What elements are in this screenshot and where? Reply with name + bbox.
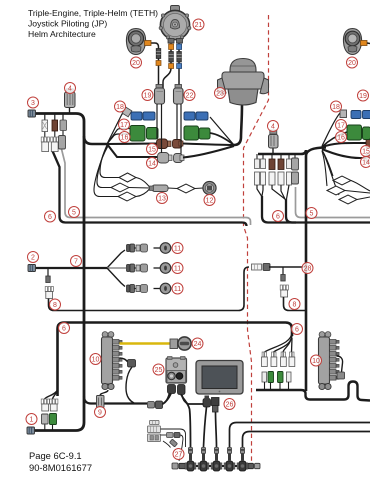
helm2 harness bar bbox=[258, 150, 306, 154]
item 27 fuse module stack bbox=[148, 421, 161, 442]
fan from loop to white pairs bbox=[45, 390, 58, 399]
inline connector 13 bbox=[150, 185, 169, 192]
terminal block 10 bbox=[102, 332, 115, 390]
wire 2 run to fan bbox=[36, 267, 108, 269]
svg-text:27: 27 bbox=[175, 452, 183, 459]
row 18: small gray connector bbox=[122, 107, 132, 117]
svg-text:6: 6 bbox=[62, 326, 66, 333]
crossover diamond near 12 bbox=[177, 184, 195, 193]
svg-text:26: 26 bbox=[226, 402, 234, 409]
row 2 dark plug bbox=[127, 265, 131, 272]
main helm1 harness vertical with top run to connector 3 and bottom run to connector 1 bbox=[35, 114, 85, 431]
row 17/16: green connector pair left bbox=[130, 126, 158, 142]
svg-text:1: 1 bbox=[30, 417, 34, 424]
connector 4b bbox=[269, 130, 279, 148]
connector 1 bbox=[27, 427, 35, 434]
black wire from block stud bbox=[120, 358, 128, 362]
wire 28 to helm2 vertical bbox=[269, 266, 306, 268]
wire pair to box left port bbox=[163, 391, 171, 404]
wire 6 black helm2 vertical b bbox=[286, 199, 296, 223]
svg-text:11: 11 bbox=[174, 246, 181, 253]
svg-text:20: 20 bbox=[132, 60, 140, 67]
svg-text:11: 11 bbox=[174, 266, 181, 273]
svg-text:6: 6 bbox=[48, 214, 52, 221]
display 26 bbox=[196, 361, 243, 395]
wire 5 gray helm2 to right edge bbox=[296, 187, 370, 218]
round connector 11 #2 bbox=[154, 267, 161, 269]
unit 23 bbox=[218, 59, 269, 106]
unit 23 cable bbox=[234, 104, 242, 145]
row 18: blue connector pair left bbox=[131, 112, 155, 120]
yellow wire 24 bbox=[120, 342, 171, 344]
NMEA tee connector 1 bbox=[185, 448, 196, 472]
stub wires top-left hanging connectors bbox=[44, 114, 46, 121]
row 2 wire bbox=[135, 267, 137, 269]
right cluster white pair 4 bbox=[289, 352, 295, 367]
svg-text:13: 13 bbox=[158, 196, 166, 203]
right cluster white pair 2 bbox=[271, 352, 277, 367]
row 3 wire bbox=[135, 288, 137, 290]
box right port cable down to tee1 bbox=[181, 395, 191, 448]
joystick 20 bbox=[126, 29, 151, 55]
fan to round connectors 11 bbox=[107, 250, 125, 268]
item 27 wires bbox=[161, 429, 186, 447]
svg-text:2: 2 bbox=[31, 255, 35, 262]
svg-text:15: 15 bbox=[148, 147, 156, 154]
lacing tail wires to convergence bbox=[136, 178, 150, 188]
helm3 joystick 20b bbox=[343, 29, 367, 55]
svg-text:16: 16 bbox=[121, 135, 129, 142]
svg-text:8: 8 bbox=[53, 302, 57, 309]
helm3 row 18b connectors bbox=[340, 110, 370, 119]
round connector 11 #1 bbox=[154, 247, 161, 249]
svg-text:14: 14 bbox=[148, 161, 156, 168]
pigtail from unit 21 left into module 19 bbox=[163, 39, 171, 88]
svg-text:24: 24 bbox=[194, 341, 202, 348]
junction wires to connector rows bbox=[107, 112, 126, 144]
row 14b partial gray connector at page edge bbox=[366, 154, 370, 163]
row 18: blue connector pair right bbox=[184, 112, 208, 120]
right cluster white pair 3 bbox=[281, 352, 287, 367]
title text bbox=[28, 8, 158, 39]
row 17/16: green connector pair right bbox=[184, 126, 210, 140]
gray and green connectors above wire 1 bbox=[44, 424, 46, 431]
svg-text:6: 6 bbox=[276, 214, 280, 221]
svg-text:Helm Architecture: Helm Architecture bbox=[28, 29, 96, 39]
svg-text:18: 18 bbox=[332, 104, 340, 111]
helm3 vertical harness bbox=[306, 148, 326, 392]
row 15: brown connector pair bbox=[157, 139, 184, 149]
svg-text:20: 20 bbox=[348, 60, 356, 67]
row 2 inline connector bbox=[136, 265, 140, 271]
helm3 junction wires bbox=[322, 113, 340, 146]
row2 white pair connectors bbox=[255, 172, 299, 185]
round plug 24 bbox=[178, 337, 191, 350]
module 19 bbox=[155, 85, 165, 105]
svg-text:17: 17 bbox=[120, 122, 128, 129]
footer text bbox=[29, 450, 92, 473]
wire 13 to diamond bbox=[168, 187, 177, 190]
svg-text:19: 19 bbox=[144, 93, 152, 100]
connector 9 bbox=[97, 396, 105, 408]
backbone terminator left bbox=[172, 463, 186, 469]
svg-text:19: 19 bbox=[359, 93, 367, 100]
svg-text:11: 11 bbox=[174, 286, 181, 293]
NMEA backbone wire bbox=[186, 465, 247, 467]
svg-text:21: 21 bbox=[195, 22, 203, 29]
helm station boundary dashed line bbox=[244, 15, 269, 462]
lacing wires from junction bbox=[100, 145, 119, 178]
svg-text:4: 4 bbox=[68, 86, 72, 93]
wire 5 gray helm1 to boundary bbox=[62, 149, 251, 225]
right cluster row2 connectors bbox=[262, 372, 291, 383]
svg-text:3: 3 bbox=[31, 100, 35, 107]
hanging connectors below top harness bbox=[42, 120, 67, 132]
box left port elbow piece bbox=[168, 385, 176, 394]
NMEA tee connector 5 bbox=[237, 448, 248, 472]
wire lacing diamonds helm1 bbox=[119, 173, 136, 182]
svg-text:14: 14 bbox=[362, 160, 370, 167]
svg-text:10: 10 bbox=[92, 357, 100, 364]
NMEA tee connector 4 bbox=[224, 448, 235, 472]
svg-text:90-8M0161677: 90-8M0161677 bbox=[29, 462, 92, 473]
terminal block 10 stud terminals bbox=[113, 340, 120, 345]
connector 4b stub bbox=[272, 148, 274, 154]
svg-text:10: 10 bbox=[312, 358, 320, 365]
branch from vertical to elbow connectors bbox=[84, 396, 147, 404]
display wire to tee3 bbox=[216, 412, 217, 447]
row 15b partial brown connector at page edge bbox=[366, 140, 370, 149]
svg-text:17: 17 bbox=[337, 123, 345, 130]
right cluster white pair 1 bbox=[262, 352, 268, 367]
svg-text:18: 18 bbox=[116, 104, 124, 111]
module 22 bbox=[174, 85, 184, 105]
round connector 11 #3 bbox=[154, 288, 161, 290]
connector of item 24 bbox=[170, 339, 178, 349]
svg-text:25: 25 bbox=[155, 367, 163, 374]
lacing diamonds helm3 bbox=[333, 176, 351, 185]
elbow wire down to tee2 bbox=[204, 407, 207, 447]
white pair connectors bottom-left bbox=[41, 399, 49, 411]
long loop wire 6 bottom span bbox=[58, 323, 293, 397]
round connector 12 bbox=[203, 181, 216, 194]
right cluster bar looping around block feet to right edge bbox=[256, 382, 370, 401]
wire from block 10b bbox=[337, 356, 343, 372]
row 14: gray connector pair bbox=[158, 153, 185, 164]
box left port cable down to inline pair bbox=[163, 394, 172, 405]
svg-text:Page 6C-9.1: Page 6C-9.1 bbox=[29, 450, 82, 461]
pigtail from unit 21 right into module 22 bbox=[178, 39, 179, 88]
terminal block 10b bbox=[319, 332, 332, 390]
helm3 row 17b/16b green connectors bbox=[347, 125, 370, 140]
right cluster fan bbox=[265, 332, 293, 352]
wire 6 black helm2 vertical a bbox=[262, 196, 370, 223]
wire 8 left run to inline connector 28 bbox=[49, 267, 250, 311]
row 3 inline connector bbox=[136, 286, 140, 292]
row1 connectors bbox=[255, 158, 299, 170]
svg-text:5: 5 bbox=[310, 211, 314, 218]
row2 stubs to bar bbox=[264, 382, 266, 390]
svg-text:16: 16 bbox=[337, 135, 345, 142]
harness branch to junction bbox=[84, 136, 107, 144]
connector 4 bbox=[65, 89, 76, 108]
svg-text:23: 23 bbox=[216, 91, 224, 98]
elbow connector near display bbox=[182, 395, 211, 407]
joystick 20 pigtail into module 19 bbox=[151, 43, 159, 88]
svg-text:Joystick Piloting (JP): Joystick Piloting (JP) bbox=[28, 19, 107, 29]
module output wires bbox=[156, 104, 158, 139]
fan from row2 to verticals bbox=[257, 185, 262, 196]
junction box 25 bbox=[166, 357, 187, 384]
svg-text:4: 4 bbox=[271, 124, 275, 131]
svg-text:6: 6 bbox=[295, 327, 299, 334]
row 1 dark plug bbox=[127, 245, 131, 252]
helm3 joystick pigtail off page bbox=[367, 42, 370, 45]
inline connector pair on box cable bbox=[148, 401, 163, 409]
drop chain right bbox=[282, 267, 284, 275]
NMEA tee connector 2 bbox=[198, 448, 209, 472]
drop line to tee4 bbox=[230, 423, 370, 448]
block to connector 9 bbox=[100, 390, 108, 396]
wire 8 right bbox=[284, 297, 307, 311]
helm unit 21 bbox=[159, 6, 191, 44]
wire 6 black helm1 to boundary bbox=[53, 151, 247, 226]
svg-text:28: 28 bbox=[304, 266, 312, 273]
svg-text:12: 12 bbox=[206, 198, 214, 205]
helm3 lacing wires bbox=[322, 150, 333, 176]
hanging stubs row1 bbox=[256, 154, 258, 159]
drop line to tee5 bbox=[243, 432, 370, 448]
wire to connector 12 bbox=[195, 187, 203, 190]
row 3 dark plug bbox=[127, 285, 131, 292]
connector 4 stub bbox=[69, 107, 71, 114]
svg-text:5: 5 bbox=[72, 210, 76, 217]
drop chain below wire 2 bbox=[47, 268, 49, 276]
connector 2 bbox=[28, 265, 36, 272]
inline connector 28 bbox=[252, 264, 271, 271]
svg-text:9: 9 bbox=[98, 410, 102, 417]
svg-text:15: 15 bbox=[362, 149, 370, 156]
backbone right end connector bbox=[248, 463, 260, 468]
svg-text:Triple-Engine, Triple-Helm (TE: Triple-Engine, Triple-Helm (TETH) bbox=[28, 8, 158, 18]
terminal block 10b stud terminals bbox=[330, 340, 337, 345]
svg-text:8: 8 bbox=[293, 302, 297, 309]
junction 23 fan wires bbox=[210, 117, 234, 145]
display plug bbox=[212, 398, 220, 413]
box right port plug piece bbox=[178, 385, 186, 395]
NMEA tee connector 3 bbox=[211, 448, 222, 472]
svg-text:22: 22 bbox=[186, 93, 194, 100]
row 1 inline connector bbox=[136, 245, 140, 251]
connector 3 bbox=[28, 110, 36, 117]
svg-text:7: 7 bbox=[74, 259, 78, 266]
row 1 wire bbox=[135, 247, 137, 249]
